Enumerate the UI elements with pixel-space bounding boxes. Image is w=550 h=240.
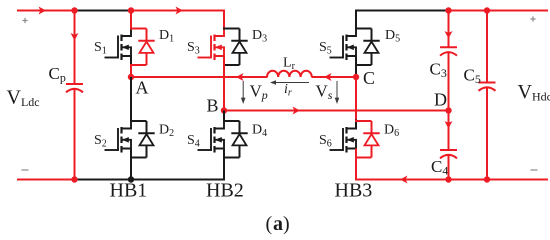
junction bottom rail HB1 [128,176,134,182]
svg-text:A: A [136,78,149,98]
wire node B to node D with current arrow [224,110,449,112]
transistor S2 [120,127,122,134]
polarity + left [22,20,27,22]
wire S6 source to bottom rail corner (red) [355,149,357,181]
wire S6 diode branch top (red) [355,120,372,122]
wire S5 source to node C [355,56,357,75]
node C [353,74,359,80]
wire S3 diode branch top [223,28,240,30]
svg-text:HB1: HB1 [110,180,148,202]
wire HB3 top rail black segment [355,10,449,12]
junction top rail Cp [71,7,77,13]
wire S1 source to node A [130,55,132,66]
wire S1 diode branch top (red) [130,28,147,30]
transistor S4 [213,127,215,134]
diode D6 [371,121,373,133]
wire node D to C4 with current arrow [448,111,450,151]
junction top rail C5 [484,7,490,13]
polarity + right [530,18,535,20]
polarity - right [531,169,538,171]
wire C4 to bottom rail [448,155,450,180]
transistor S3 [213,35,215,42]
node D [445,107,451,113]
wire HB3 top rail red segment to VHdc [448,10,548,12]
transistor S5 [345,35,347,42]
wire bottom rail left red segment [17,179,75,181]
wire top rail red segment to HB2 with current arrow [131,10,226,12]
wire S4 diode branch top [223,120,240,122]
wire C3 to node D [448,52,450,111]
wire S3 diode branch bottom [223,64,240,66]
polarity - left [21,169,28,171]
svg-text:B: B [207,96,219,116]
wire S4 source to bottom rail corner [223,149,225,180]
transistor S1 [120,35,122,42]
wire S3 source to node B (red path crossing A-Lr wire) [223,56,225,111]
junction top rail C3 [445,7,451,13]
svg-text:HB3: HB3 [335,180,373,202]
wire top rail mid black segment [74,10,132,12]
current arrow ir [274,82,309,84]
wire bottom rail black segment [74,179,225,181]
capacitor C4 [440,149,457,151]
wire HB2 drain from top rail (red path) [223,10,225,30]
wire C5 from top rail [486,11,488,83]
svg-text:): ) [283,213,290,235]
capacitor C5 [479,82,496,84]
wire HB1 drain from top rail (red path) [130,11,132,30]
wire HB3 drain from top rail [355,10,357,30]
svg-text:(: ( [266,213,273,235]
wire node C to S6 (red path crossing B-D wire) [355,77,357,121]
wire S2 diode branch top [130,120,147,122]
transistor S6 [345,127,347,134]
svg-text:HB2: HB2 [206,180,244,202]
wire S2 diode branch bottom [130,157,147,159]
wire C5 to bottom rail [486,87,488,180]
junction bottom rail C5 [484,176,490,182]
node B [221,107,227,113]
junction bottom rail C4 [445,176,451,182]
wire S5 diode branch bottom [355,64,372,66]
wire S2 source to bottom rail [130,149,132,180]
wire Lr to node C with current arrow [312,76,357,78]
diode D4 [239,121,241,133]
voltage arrow Vs [336,81,338,100]
junction bottom rail Cp [71,176,77,182]
wire S4 diode branch bottom [223,157,240,159]
wire S5 diode branch top [355,28,372,30]
wire S6 diode branch bottom (red) [355,157,372,159]
wire Cp branch lower [74,89,76,180]
wire node A to S2 drain [130,77,132,121]
diode D5 [371,29,373,41]
wire node B to S4 drain [223,111,225,121]
wire Cp branch upper with current arrow [74,11,76,85]
svg-text:a: a [273,213,283,235]
wire bottom rail right red segment with current arrow [355,179,548,181]
wire node A to Lr with current arrow [131,76,268,78]
diode D3 [239,29,241,41]
node A [128,74,134,80]
wire top rail left red segment with current arrow [17,10,75,12]
svg-text:C: C [363,68,375,88]
diode D2 [146,121,148,133]
wire S1 diode branch bottom (red) [130,64,147,66]
svg-text:D: D [434,90,447,110]
diode D1 [146,29,148,41]
inductor Lr [267,71,312,77]
wire C3 branch from top rail with current arrow [448,11,450,48]
wire S6 drain stub [355,120,357,130]
junction top rail HB1 [128,7,134,13]
capacitor Cp [66,83,83,85]
capacitor C3 [440,46,457,48]
voltage arrow Vp [242,81,244,100]
